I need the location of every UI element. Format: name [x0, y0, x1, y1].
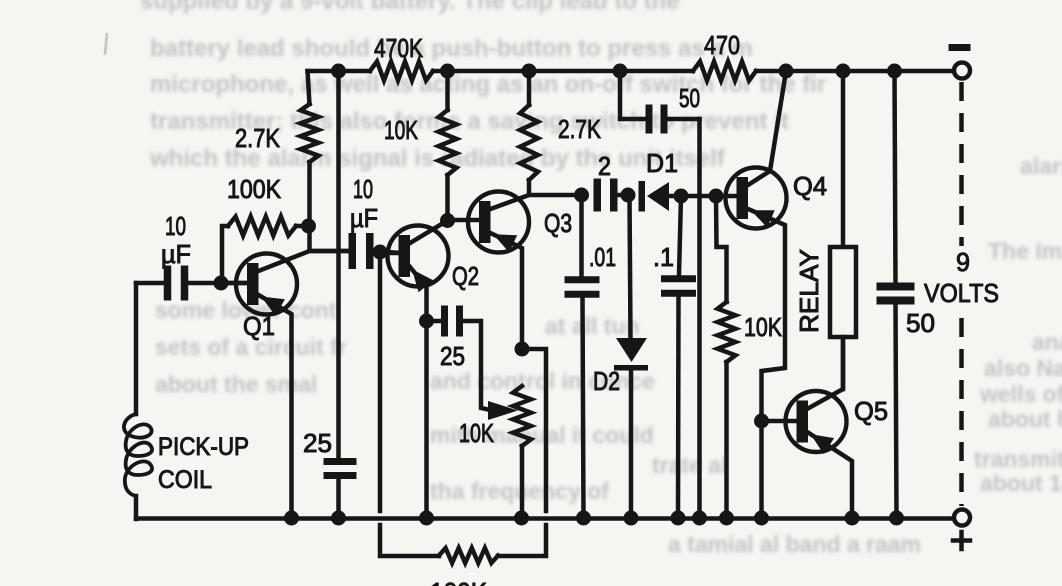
svg-text:D1: D1	[646, 148, 678, 178]
resistor 10K (Q3 base, from rail)	[384, 71, 457, 220]
capacitor 2 (coupling to D1)	[574, 151, 628, 212]
svg-text:470K: 470K	[374, 33, 424, 63]
svg-text:100K: 100K	[430, 577, 488, 586]
wire: 25uF bypass from rail to ground	[336, 71, 341, 457]
resistor 2.7K (Q3 collector load)	[520, 71, 602, 195]
potentiometer 10K body (Q3 emitter to ground)	[513, 342, 531, 519]
svg-text:50: 50	[679, 83, 700, 113]
svg-text:µF: µF	[350, 203, 378, 233]
resistor 100K (Q1 feedback)	[222, 174, 309, 283]
svg-text:10: 10	[165, 211, 186, 241]
svg-text:2.7K: 2.7K	[235, 123, 281, 153]
svg-text:VOLTS: VOLTS	[924, 278, 999, 308]
wire: input cap to pick-up coil	[136, 281, 164, 286]
svg-text:Q4: Q4	[793, 171, 827, 201]
node: Q4 base	[709, 189, 724, 204]
node: Q5 base	[754, 414, 769, 429]
capacitor 25 (Q2 emitter bypass)	[419, 306, 490, 411]
diode D1	[621, 148, 717, 212]
svg-text:Q3: Q3	[544, 208, 572, 238]
node: Q1 base / 100K	[214, 276, 229, 291]
resistor 470 (top right)	[693, 30, 756, 81]
battery 9V dashed line	[924, 82, 999, 506]
svg-text:.1: .1	[653, 242, 674, 272]
svg-text:COIL: COIL	[158, 466, 212, 494]
capacitor 50 (top, across 470)	[620, 71, 700, 134]
svg-text:2.7K: 2.7K	[558, 114, 602, 144]
transistor Q2	[380, 221, 449, 519]
svg-text:25: 25	[303, 428, 332, 458]
svg-text:2: 2	[598, 151, 611, 181]
svg-text:10K: 10K	[744, 312, 783, 342]
battery positive terminal (bottom right)	[953, 510, 970, 550]
node: Q2 base	[373, 245, 388, 260]
svg-text:10: 10	[353, 174, 373, 204]
svg-text:9: 9	[956, 247, 970, 277]
stray scan mark	[105, 33, 107, 55]
transistor Q5	[762, 337, 853, 518]
node: 2.7K/100K junction	[301, 219, 316, 234]
svg-text:10K: 10K	[384, 115, 418, 145]
capacitor .01	[565, 195, 617, 518]
pick-up coil L1	[124, 283, 249, 519]
capacitor 10uF (input)	[161, 211, 191, 301]
svg-text:RELAY: RELAY	[794, 249, 824, 333]
resistor 10K (Q4 base to ground)	[716, 196, 783, 518]
ground/return bottom rail	[136, 516, 954, 521]
wire: input cap to Q1 base	[189, 281, 247, 286]
wire: 50 cap branch down to ground rail	[697, 119, 702, 518]
svg-text:PICK-UP: PICK-UP	[158, 433, 249, 461]
capacitor 50 (supply electrolytic)	[877, 71, 936, 518]
potentiometer 10K wiper arrow	[459, 401, 518, 448]
svg-text:10K: 10K	[459, 418, 494, 448]
svg-text:100K: 100K	[227, 174, 282, 204]
svg-text:Q5: Q5	[854, 396, 888, 426]
battery negative terminal (top right)	[949, 44, 971, 79]
svg-text:50: 50	[906, 308, 935, 338]
relay coil	[794, 71, 856, 389]
transistor Q3	[448, 192, 530, 350]
svg-text:µF: µF	[161, 239, 191, 269]
svg-text:.01: .01	[589, 242, 616, 272]
svg-text:25: 25	[440, 341, 465, 371]
resistor 100K (bottom feedback)	[380, 252, 546, 586]
node: Q2 collector / Q3 base	[440, 213, 455, 228]
resistor 2.7K (left) with lead down to 100K node	[235, 71, 349, 251]
transistor Q1	[221, 251, 310, 518]
svg-text:470: 470	[704, 30, 740, 60]
top supply rail	[308, 69, 955, 74]
capacitor 25 (supply filter)	[303, 428, 357, 518]
node: rail junction dots	[331, 64, 902, 79]
svg-text:D2: D2	[593, 366, 620, 396]
svg-text:Q1: Q1	[243, 311, 275, 341]
node: D1 anode / .1 cap	[674, 189, 689, 204]
resistor 470K (top)	[370, 33, 433, 81]
svg-text:Q2: Q2	[452, 261, 479, 291]
capacitor .1	[653, 196, 696, 518]
capacitor 10uF (interstage, Q1-Q2)	[310, 174, 401, 269]
transistor Q4	[716, 71, 787, 518]
node: bottom rail junction dots	[284, 511, 904, 526]
diode D2	[593, 195, 648, 518]
